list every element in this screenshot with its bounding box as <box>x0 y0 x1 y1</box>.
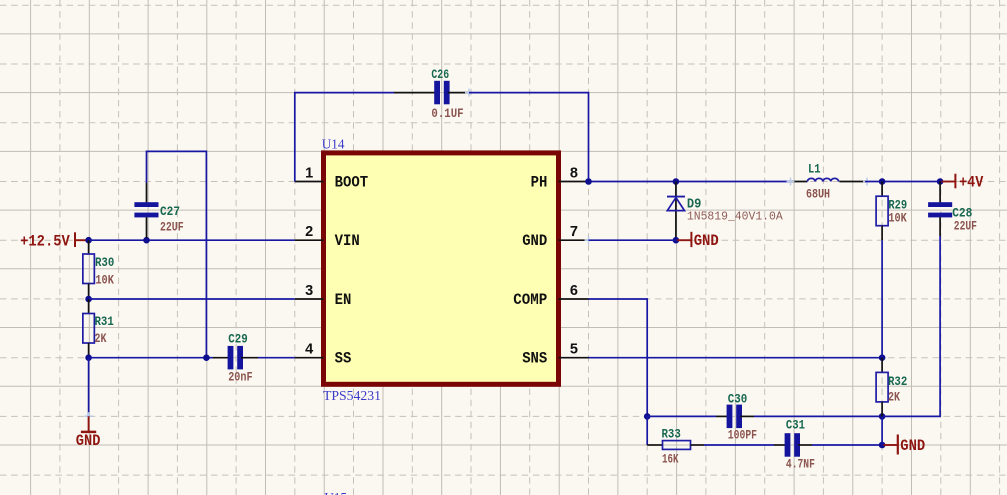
pin 8 PH stub <box>559 181 589 183</box>
svg-text:C26: C26 <box>431 67 449 82</box>
wire SS row left <box>89 357 213 359</box>
node R29 top junction <box>879 178 886 185</box>
ground GND (pin 7) <box>677 232 691 247</box>
wire BOOT riser to C26 row <box>295 93 394 182</box>
wire endpoint marker (C26 lead) <box>465 89 473 97</box>
svg-text:10K: 10K <box>95 273 114 288</box>
wire R33 to C31 <box>704 444 774 446</box>
node SS-R31 junction <box>85 354 92 361</box>
node +4V junction <box>937 178 944 185</box>
svg-text:6: 6 <box>570 283 578 299</box>
op-amp U14 TPS54231 IC body <box>324 153 559 384</box>
svg-text:GND: GND <box>900 437 925 455</box>
svg-text:EN: EN <box>335 291 352 309</box>
svg-text:1N5819_40V1.0A: 1N5819_40V1.0A <box>687 209 783 223</box>
resistor R29 <box>876 182 888 241</box>
node COMP drop junction <box>644 413 651 420</box>
wire L1 to +4V node <box>865 181 940 183</box>
svg-text:2K: 2K <box>95 331 107 346</box>
wire C28 bottom branch <box>882 236 940 416</box>
capacitor C28 <box>928 182 952 237</box>
pin 7 GND stub <box>559 239 589 241</box>
node R32 bottom junction <box>879 413 886 420</box>
pin 2 VIN stub <box>295 239 324 241</box>
power +12.5V symbol <box>75 232 89 247</box>
wire GND pin7 row <box>589 239 676 241</box>
node EN junction <box>85 296 92 303</box>
diode D9 <box>667 182 685 241</box>
wire EN row <box>89 298 295 300</box>
svg-text:R30: R30 <box>95 255 114 270</box>
capacitor C27 <box>134 183 158 238</box>
svg-text:C27: C27 <box>160 204 180 219</box>
resistor R31 <box>83 299 95 358</box>
pin 5 SNS stub <box>559 357 589 359</box>
wire endpoint markers (PH net) <box>787 178 872 186</box>
node C27 bottom junction <box>143 237 150 244</box>
svg-text:0.1UF: 0.1UF <box>431 106 463 121</box>
svg-text:68UH: 68UH <box>806 187 830 202</box>
svg-text:100PF: 100PF <box>728 428 757 443</box>
svg-text:8: 8 <box>570 165 578 181</box>
svg-text:20nF: 20nF <box>228 370 252 385</box>
ground GND (right) <box>884 435 898 455</box>
svg-text:10K: 10K <box>888 211 907 226</box>
svg-text:22UF: 22UF <box>160 220 184 235</box>
resistor R32 <box>876 358 888 417</box>
wire endpoint marker (pin 7 stub) <box>585 236 593 244</box>
svg-text:TPS54231: TPS54231 <box>323 389 381 404</box>
pin 1 BOOT stub <box>295 181 324 183</box>
svg-text:GND: GND <box>694 232 719 250</box>
svg-text:4: 4 <box>305 342 313 358</box>
pin 4 SS stub <box>295 357 324 359</box>
svg-text:22UF: 22UF <box>954 219 977 234</box>
svg-text:C31: C31 <box>786 418 805 433</box>
capacitor C29 <box>213 346 258 370</box>
svg-text:U14: U14 <box>322 138 345 153</box>
svg-text:COMP: COMP <box>513 291 547 309</box>
pin 6 COMP stub <box>559 298 589 300</box>
wire SNS row <box>589 357 883 359</box>
svg-text:+4V: +4V <box>959 174 984 192</box>
wire PH row <box>589 181 791 183</box>
ground GND (left) <box>81 416 96 432</box>
svg-text:U15: U15 <box>324 491 347 495</box>
svg-text:4.7NF: 4.7NF <box>786 456 815 471</box>
svg-text:GND: GND <box>522 232 547 250</box>
svg-text:R33: R33 <box>662 427 681 442</box>
node SS loop junction <box>203 354 210 361</box>
wire COMP drop to R33 row <box>646 416 648 445</box>
svg-text:C29: C29 <box>228 332 248 347</box>
node SNS junction <box>879 354 886 361</box>
node bottom GND junction <box>879 442 886 449</box>
svg-text:SS: SS <box>335 350 352 368</box>
svg-text:SNS: SNS <box>522 350 547 368</box>
svg-text:7: 7 <box>570 224 578 240</box>
resistor R33 <box>647 441 704 450</box>
capacitor C31 <box>774 433 812 457</box>
wire R29 bottom to SNS row <box>881 240 883 358</box>
wire VIN row <box>89 239 295 241</box>
svg-text:16K: 16K <box>662 452 679 467</box>
node VIN junction at +12.5V <box>85 237 92 244</box>
wire C26 to PH drop <box>469 93 589 182</box>
svg-text:2K: 2K <box>888 390 900 405</box>
svg-text:+12.5V: +12.5V <box>20 232 70 250</box>
capacitor C26 <box>394 81 469 105</box>
wire COMP row and drop <box>589 299 648 416</box>
wire C27 top loop to SS row <box>147 151 207 357</box>
wire C30 to R32 bottom junction <box>754 415 882 417</box>
wire endpoint marker (left ground) <box>85 412 93 420</box>
svg-text:1: 1 <box>305 165 313 181</box>
pin 3 EN stub <box>295 298 324 300</box>
svg-text:L1: L1 <box>808 162 821 177</box>
power +4V symbol <box>942 174 956 189</box>
wire C31 to GND junction <box>812 444 882 446</box>
svg-text:5: 5 <box>570 342 578 358</box>
svg-text:BOOT: BOOT <box>335 173 369 191</box>
svg-text:R31: R31 <box>95 314 114 329</box>
svg-text:VIN: VIN <box>335 232 360 250</box>
svg-text:GND: GND <box>76 432 101 450</box>
inductor L1 <box>791 178 866 181</box>
wire C30 row from COMP junction <box>647 415 716 417</box>
svg-text:2: 2 <box>305 224 313 240</box>
wire C29 to SS pin <box>258 357 295 359</box>
svg-text:PH: PH <box>531 173 548 191</box>
svg-text:R32: R32 <box>888 374 907 389</box>
node D9 anode junction <box>673 237 680 244</box>
wire R31 bottom to ground <box>88 358 90 417</box>
wire R32 bottom junction to GND junction <box>881 416 883 445</box>
svg-text:3: 3 <box>305 283 313 299</box>
node D9 cathode junction <box>673 178 680 185</box>
node PH junction <box>585 178 592 185</box>
svg-text:C30: C30 <box>728 392 748 407</box>
capacitor C30 <box>716 405 754 429</box>
resistor R30 <box>83 240 95 299</box>
